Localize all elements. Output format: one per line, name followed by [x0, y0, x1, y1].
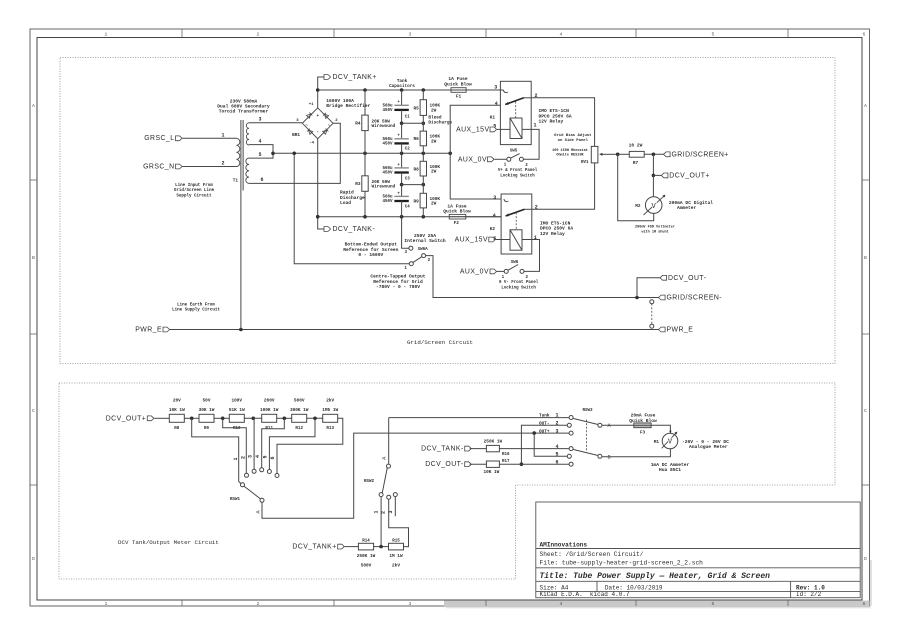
svg-text:0 V- Front Panel: 0 V- Front Panel	[499, 280, 539, 285]
svg-text:Ammeter: Ammeter	[677, 205, 697, 211]
wire bridge bottom to - rail	[317, 139, 319, 217]
svg-text:3: 3	[494, 84, 497, 90]
svg-text:51K 1W: 51K 1W	[229, 408, 245, 413]
svg-text:Grid/Screen Circuit: Grid/Screen Circuit	[407, 339, 473, 346]
wire R17 to selector pin6	[499, 463, 569, 465]
svg-text:Rapid: Rapid	[340, 190, 354, 196]
svg-text:A: A	[864, 103, 867, 109]
svg-text:5: 5	[712, 32, 715, 38]
svg-text:B: B	[864, 255, 867, 261]
resistor R9	[199, 414, 214, 422]
svg-text:Tank: Tank	[539, 414, 550, 419]
svg-text:4: 4	[495, 101, 498, 107]
svg-text:-26V - 0 - 26V DC: -26V - 0 - 26V DC	[682, 439, 729, 445]
wire transformer pin 3 to bridge	[249, 122, 302, 124]
svg-text:200mV FSD Voltmeter: 200mV FSD Voltmeter	[635, 225, 675, 230]
svg-text:F3: F3	[640, 430, 646, 435]
svg-text:1: 1	[534, 123, 537, 129]
svg-text:C1: C1	[405, 115, 411, 119]
wire fuse to meter M1	[651, 425, 670, 433]
svg-text:50V: 50V	[203, 398, 211, 403]
wire selector pole B to meter M1 minus	[602, 449, 671, 457]
svg-text:1M 1W: 1M 1W	[389, 554, 403, 559]
global label PWR_E right	[659, 327, 666, 332]
svg-text:2: 2	[221, 161, 224, 167]
svg-text:250K 1W: 250K 1W	[484, 440, 503, 445]
svg-text:DCV_TANK-: DCV_TANK-	[333, 226, 376, 233]
svg-text:1: 1	[555, 413, 558, 419]
svg-text:1M5 1W: 1M5 1W	[322, 408, 338, 413]
relay K2	[501, 194, 532, 254]
svg-text:1A Fuse: 1A Fuse	[447, 203, 467, 209]
svg-text:+1: +1	[309, 103, 314, 107]
svg-text:Locking Switch: Locking Switch	[500, 173, 535, 178]
svg-text:200mA DC Digital: 200mA DC Digital	[669, 200, 713, 206]
svg-text:6: 6	[270, 456, 276, 459]
wire bridge top to + rail	[317, 90, 319, 108]
junction divider	[374, 546, 389, 548]
svg-text:Reference for Grid: Reference for Grid	[373, 279, 423, 285]
svg-text:4: 4	[255, 455, 261, 458]
wire chain segment	[307, 417, 323, 419]
svg-text:Centre-Tapped Output: Centre-Tapped Output	[370, 274, 425, 280]
junction rheostat wiper	[616, 153, 620, 157]
svg-text:-4: -4	[309, 142, 314, 146]
wire PWR_E rail	[170, 329, 659, 331]
svg-text:Load: Load	[340, 200, 351, 206]
resistor R6 bleed	[422, 123, 424, 131]
wire SW6A pin2 to GRID/SCREEN- rail	[426, 256, 659, 298]
bridge rectifier BR1	[302, 108, 333, 139]
resistor R8	[169, 414, 184, 422]
svg-text:OUT+: OUT+	[539, 429, 550, 434]
svg-text:Bottom-Ended Output: Bottom-Ended Output	[345, 242, 398, 248]
svg-text:20V: 20V	[173, 398, 181, 403]
svg-text:R12: R12	[295, 427, 303, 431]
svg-text:File: tube-supply-heater-grid-: File: tube-supply-heater-grid-screen_2_2…	[540, 560, 704, 567]
svg-text:DCV_TANK+: DCV_TANK+	[333, 74, 377, 81]
svg-text:6: 6	[863, 32, 866, 38]
resistor R4	[364, 90, 366, 115]
svg-text:1: 1	[233, 457, 239, 460]
svg-text:3: 3	[409, 601, 412, 607]
wire - rail to internal switch SW6A	[402, 217, 409, 249]
resistor R17	[486, 461, 499, 467]
svg-text:Toroid Transformer: Toroid Transformer	[219, 109, 269, 115]
svg-text:2: 2	[381, 511, 387, 514]
wire RSW1 common to A bus	[262, 433, 569, 518]
svg-text:DPCO 250V 6A: DPCO 250V 6A	[540, 226, 573, 232]
rotary switch RSW2	[379, 493, 383, 497]
svg-text:Hua 85C1: Hua 85C1	[659, 467, 681, 473]
global label DCV_TANK+	[318, 77, 324, 90]
relay K2 contact arm	[506, 209, 525, 216]
resistor R15	[389, 543, 404, 550]
svg-text:450V: 450V	[382, 109, 393, 113]
selector RSW3 contacts	[569, 416, 573, 420]
svg-text:0 - 1600V: 0 - 1600V	[358, 252, 383, 258]
wire relay K1 pin1 to switch SW5	[522, 129, 539, 159]
svg-text:3: 3	[555, 428, 558, 434]
svg-text:Reference for Screen: Reference for Screen	[343, 247, 398, 253]
svg-text:-: -	[316, 131, 319, 135]
svg-text:D: D	[864, 556, 867, 562]
wire centre tap to SW6A common	[294, 153, 409, 263]
switch SW6	[504, 269, 508, 273]
global label DCV_OUT+	[661, 173, 668, 178]
svg-text:100V: 100V	[232, 398, 243, 403]
wire selector pin2 to DCV_OUT- net	[521, 425, 567, 464]
svg-text:Line Supply Circuit: Line Supply Circuit	[172, 308, 220, 313]
wire tap6 (2kV) to RSW1 contact6	[277, 418, 343, 473]
svg-text:450V: 450V	[382, 171, 393, 175]
selector RSW3 pole A lever	[573, 418, 598, 424]
svg-text:DCV_OUT+: DCV_OUT+	[669, 172, 710, 179]
svg-text:3: 3	[493, 195, 496, 201]
svg-text:Wirewound: Wirewound	[372, 185, 396, 190]
svg-text:Ohmite RES10K: Ohmite RES10K	[556, 153, 584, 158]
ammeter M2 200mA digital	[652, 175, 654, 196]
svg-text:5: 5	[555, 452, 558, 458]
wire tap2 to RSW1 contact2	[223, 418, 247, 473]
svg-text:1mA DC Ammeter: 1mA DC Ammeter	[651, 462, 690, 468]
wire GRSC_L to transformer pin 1	[183, 137, 237, 139]
wire Tank line to selector pin1	[389, 417, 569, 419]
svg-text:4: 4	[493, 213, 496, 219]
svg-text:R5: R5	[414, 106, 420, 111]
svg-text:AUX_15V: AUX_15V	[456, 126, 489, 133]
svg-text:2: 2	[257, 32, 260, 38]
wire - rail	[318, 216, 501, 218]
svg-text:3: 3	[409, 32, 412, 38]
svg-text:230V 580mA: 230V 580mA	[230, 98, 258, 104]
svg-text:100K 1W: 100K 1W	[260, 408, 279, 413]
svg-text:Quick Blow: Quick Blow	[444, 81, 472, 87]
svg-text:1: 1	[534, 235, 537, 241]
junction C3-C4 / bleeder	[400, 183, 404, 187]
svg-text:Grid Bias Adjust: Grid Bias Adjust	[554, 133, 591, 138]
wire transformer pin 4 to centre tap	[249, 145, 273, 154]
wire mid rail to relay pins	[450, 105, 501, 199]
border column ticks top/bottom	[181, 29, 183, 38]
svg-text:C4: C4	[405, 206, 411, 210]
svg-text:3: 3	[258, 117, 261, 123]
svg-text:10K 1W: 10K 1W	[483, 470, 499, 475]
svg-text:SW6: SW6	[511, 261, 519, 265]
svg-text:2W: 2W	[431, 170, 437, 175]
transformer T1 secondary winding B (pins 5-6)	[246, 158, 249, 183]
dashed box Grid/Screen Circuit	[60, 58, 835, 364]
svg-text:20mA Fuse: 20mA Fuse	[631, 413, 656, 419]
relay K1 contact arm	[505, 98, 524, 105]
title block outline	[536, 502, 860, 598]
svg-text:DCV_TANK+: DCV_TANK+	[292, 544, 336, 551]
fuse F2	[449, 214, 466, 219]
svg-text:AUX_0V: AUX_0V	[460, 269, 489, 276]
svg-text:R15: R15	[392, 540, 400, 544]
svg-text:C2: C2	[405, 147, 411, 151]
wire divider junction to RSW2 contact1	[380, 496, 382, 546]
wire tap1 to RSW1 contact1	[192, 418, 241, 483]
global label DCV_TANK- top	[318, 217, 324, 229]
wire RSW2 common to Tank line	[388, 418, 390, 465]
svg-text:4: 4	[258, 138, 261, 144]
capacitor C4	[401, 185, 403, 197]
resistor R3	[362, 176, 368, 192]
wire R15 to RSW2 contact2	[389, 499, 409, 547]
junction taps	[190, 417, 194, 421]
capacitor C3	[401, 153, 403, 168]
wire transformer pin 6 to bridge right	[249, 123, 340, 183]
svg-text:1A Fuse: 1A Fuse	[448, 76, 468, 82]
rotary switch RSW1	[245, 473, 249, 477]
svg-text:1600V 100A: 1600V 100A	[326, 98, 354, 104]
svg-text:C: C	[32, 408, 35, 414]
selector RSW3 pole B lever	[573, 449, 598, 455]
svg-text:250V 25A: 250V 25A	[414, 233, 436, 239]
svg-text:with 1R shunt: with 1R shunt	[641, 229, 668, 234]
svg-text:IMO ETS-1CN: IMO ETS-1CN	[540, 220, 571, 226]
svg-text:Supply Circuit: Supply Circuit	[176, 193, 212, 198]
svg-text:5: 5	[712, 601, 715, 607]
svg-text:4: 4	[560, 601, 563, 607]
wire tap4 to RSW1 contact4	[262, 418, 285, 468]
svg-text:V: V	[652, 203, 657, 211]
svg-text:D: D	[32, 556, 35, 562]
wire relay K1 pin2 to rheostat	[531, 98, 594, 147]
svg-text:DCV_OUT-: DCV_OUT-	[425, 461, 463, 468]
svg-text:R9: R9	[414, 199, 420, 204]
svg-text:4: 4	[560, 32, 563, 38]
svg-text:250K 1W: 250K 1W	[357, 554, 376, 559]
svg-text:PWR_E: PWR_E	[135, 327, 162, 334]
svg-text:R16: R16	[502, 453, 510, 457]
capacitor C1	[401, 90, 403, 105]
svg-text:SW5: SW5	[510, 150, 518, 154]
svg-text:100 150W Rheostat: 100 150W Rheostat	[552, 148, 588, 153]
svg-text:GRSC_L: GRSC_L	[144, 135, 174, 142]
selector RSW3 gang link	[585, 420, 587, 453]
svg-text:K1: K1	[490, 116, 496, 121]
svg-text:Quick Blow: Quick Blow	[443, 209, 471, 215]
svg-text:450V: 450V	[382, 142, 393, 146]
svg-text:C3: C3	[405, 177, 411, 181]
svg-text:GRID/SCREEN-: GRID/SCREEN-	[667, 295, 723, 302]
gray area in bottom ruler band	[444, 601, 870, 607]
svg-text:200V: 200V	[264, 398, 275, 403]
junction C1-C2 / bleeder	[400, 122, 404, 126]
svg-text:R13: R13	[326, 427, 334, 431]
svg-text:Grid/Screen Line: Grid/Screen Line	[174, 188, 215, 193]
svg-text:R8: R8	[174, 427, 180, 431]
svg-text:12V Relay: 12V Relay	[539, 119, 564, 125]
transformer T1 core	[240, 120, 242, 191]
svg-text:DCV Tank/Output Meter Circuit: DCV Tank/Output Meter Circuit	[118, 539, 219, 546]
svg-text:Line Earth From: Line Earth From	[177, 302, 215, 307]
svg-text:DPCO 250V 6A: DPCO 250V 6A	[539, 113, 572, 119]
resistor R7	[618, 153, 630, 155]
svg-text:R4: R4	[355, 122, 361, 127]
svg-text:6: 6	[863, 601, 866, 607]
meter M1 analogue	[662, 433, 678, 449]
wire A bus to selector pin5	[534, 433, 567, 456]
svg-text:GRID/SCREEN+: GRID/SCREEN+	[672, 151, 729, 158]
rheostat RV1	[591, 146, 598, 163]
switch SW6A internal	[409, 246, 413, 250]
svg-text:10 2W: 10 2W	[629, 143, 643, 149]
svg-text:R14: R14	[362, 540, 370, 544]
wire + rail	[318, 89, 501, 91]
wire transformer core screen to earth	[240, 191, 242, 330]
resistor R14	[358, 543, 373, 550]
svg-text:30K 1W: 30K 1W	[199, 408, 215, 413]
resistor R10	[229, 414, 244, 422]
svg-text:R6: R6	[414, 137, 420, 142]
svg-text:DCV_OUT+: DCV_OUT+	[106, 415, 147, 422]
svg-text:Discharge: Discharge	[428, 120, 452, 125]
svg-text:R17: R17	[502, 460, 510, 464]
svg-text:3: 3	[248, 455, 254, 458]
svg-text:R3: R3	[355, 182, 361, 187]
svg-text:2W: 2W	[431, 139, 437, 144]
svg-text:3: 3	[388, 510, 394, 513]
svg-text:on Side Panel: on Side Panel	[558, 138, 589, 143]
wire chain segment	[214, 417, 229, 419]
wire chain segment	[244, 417, 261, 419]
svg-text:Internal Switch: Internal Switch	[404, 238, 446, 244]
svg-text:-780V - 0 - 780V: -780V - 0 - 780V	[376, 284, 420, 290]
svg-text:2: 2	[240, 456, 246, 459]
resistor R13	[323, 414, 338, 422]
svg-text:R7: R7	[633, 161, 639, 166]
svg-text:1: 1	[221, 132, 224, 138]
svg-text:RSW2: RSW2	[364, 480, 375, 484]
svg-text:GRSC_N: GRSC_N	[143, 163, 174, 170]
svg-text:C: C	[864, 408, 867, 414]
resistor R11	[262, 414, 277, 422]
svg-text:RSW1: RSW1	[230, 498, 241, 502]
global label GRID/SCREEN-	[659, 295, 666, 300]
fuse F1	[451, 88, 466, 93]
svg-text:AMInnovations: AMInnovations	[540, 542, 588, 549]
svg-text:V+ & Front Panel: V+ & Front Panel	[498, 168, 538, 173]
wire tap5 to RSW1 contact5	[269, 418, 315, 469]
svg-text:PWR_E: PWR_E	[667, 327, 694, 334]
svg-text:M2: M2	[635, 204, 641, 209]
transformer T1 primary winding	[237, 138, 240, 166]
svg-text:2W: 2W	[431, 202, 437, 207]
wire transformer pin 5 to centre tap	[249, 153, 273, 158]
svg-text:RSW3: RSW3	[582, 409, 593, 413]
svg-text:Capacitors: Capacitors	[389, 84, 415, 89]
svg-text:10K 1W: 10K 1W	[169, 408, 185, 413]
svg-text:1: 1	[374, 510, 380, 513]
transformer T1 secondary winding A (pins 3-4)	[246, 123, 249, 145]
svg-text:K2: K2	[490, 227, 496, 232]
svg-text:560u: 560u	[382, 138, 393, 142]
wire to DCV_OUT+	[652, 154, 654, 175]
svg-text:5: 5	[258, 152, 261, 158]
wire GRSC_N to transformer pin 2	[183, 166, 237, 168]
svg-text:M1: M1	[654, 440, 660, 445]
svg-text:Title: Tube Power Supply — Hea: Title: Tube Power Supply — Heater, Grid …	[540, 572, 771, 581]
wire RSW2 contact3 stub	[394, 496, 396, 516]
svg-text:A: A	[32, 103, 35, 109]
svg-text:Sheet: /Grid/Screen Circuit/: Sheet: /Grid/Screen Circuit/	[540, 551, 644, 558]
svg-text:Bridge Rectifier: Bridge Rectifier	[326, 103, 370, 109]
svg-text:1: 1	[105, 601, 108, 607]
svg-text:12V Relay: 12V Relay	[540, 231, 565, 237]
border row ticks left/right	[30, 179, 37, 181]
svg-text:IMO ETS-1CN: IMO ETS-1CN	[539, 108, 570, 114]
svg-text:560u: 560u	[382, 104, 393, 108]
wire centre tap to mid rail junction	[273, 152, 294, 154]
svg-text:F2: F2	[454, 221, 460, 226]
svg-text:DCV_OUT-: DCV_OUT-	[668, 275, 706, 282]
wire chain segment	[277, 417, 292, 419]
relay K1 coil	[510, 118, 522, 139]
svg-text:2kV: 2kV	[392, 564, 400, 569]
svg-text:R9: R9	[204, 427, 210, 431]
earth link circles	[650, 300, 654, 304]
relay K2 coil	[510, 230, 522, 250]
wire mid rail	[294, 152, 450, 154]
wire chain segment	[184, 417, 199, 419]
svg-text:500V: 500V	[294, 398, 305, 403]
svg-text:5: 5	[263, 455, 269, 458]
svg-text:R8: R8	[414, 167, 420, 172]
svg-text:1: 1	[105, 32, 108, 38]
svg-text:Discharge: Discharge	[340, 195, 365, 201]
svg-text:B: B	[32, 255, 35, 261]
svg-text:6: 6	[260, 177, 263, 183]
svg-text:Dual 600V Secondary: Dual 600V Secondary	[217, 104, 270, 110]
relay K1	[500, 81, 531, 144]
resistor R5 bleed	[422, 90, 424, 100]
svg-text:560u: 560u	[382, 195, 393, 199]
svg-text:DCV_TANK-: DCV_TANK-	[421, 446, 464, 453]
wire relay K2 pin1 to switch SW6	[522, 240, 540, 272]
junction centre tap	[271, 152, 275, 156]
wire R7 to GRID/SCREEN+	[644, 153, 663, 155]
svg-text:Quick Blow: Quick Blow	[629, 418, 657, 424]
capacitor C2	[401, 123, 403, 139]
wire to DCV_OUT-	[637, 278, 660, 298]
svg-text:300K 1W: 300K 1W	[290, 408, 309, 413]
svg-text:560u: 560u	[382, 167, 393, 171]
svg-text:2W: 2W	[431, 108, 437, 113]
svg-text:Wirewound: Wirewound	[372, 124, 396, 129]
dashed box DCV Tank/Output Meter Circuit (L-shape)	[59, 383, 835, 579]
svg-text:AUX_0V: AUX_0V	[458, 156, 487, 163]
svg-text:SW6A: SW6A	[418, 248, 429, 252]
global label DCV_OUT-	[660, 275, 667, 280]
svg-text:Locking Switch: Locking Switch	[501, 286, 536, 291]
svg-text:KiCad E.D.A. kicad 4.0.7: KiCad E.D.A. kicad 4.0.7	[540, 591, 630, 598]
wire relay K2 pin2 to rheostat bottom	[532, 163, 595, 209]
fuse F3 20mA	[602, 424, 634, 426]
resistor R9 bleed	[422, 185, 424, 194]
global label GRID/SCREEN+	[664, 152, 671, 157]
svg-text:F1: F1	[456, 94, 462, 99]
ammeter M2 wiring shunt loop	[618, 154, 654, 220]
resistor R16	[486, 445, 499, 451]
svg-text:BR1: BR1	[292, 133, 300, 138]
svg-text:RV1: RV1	[581, 161, 589, 165]
svg-text:AUX_15V: AUX_15V	[455, 237, 488, 244]
resistor R12	[292, 414, 307, 422]
wire R16 to selector pin4	[499, 448, 569, 450]
